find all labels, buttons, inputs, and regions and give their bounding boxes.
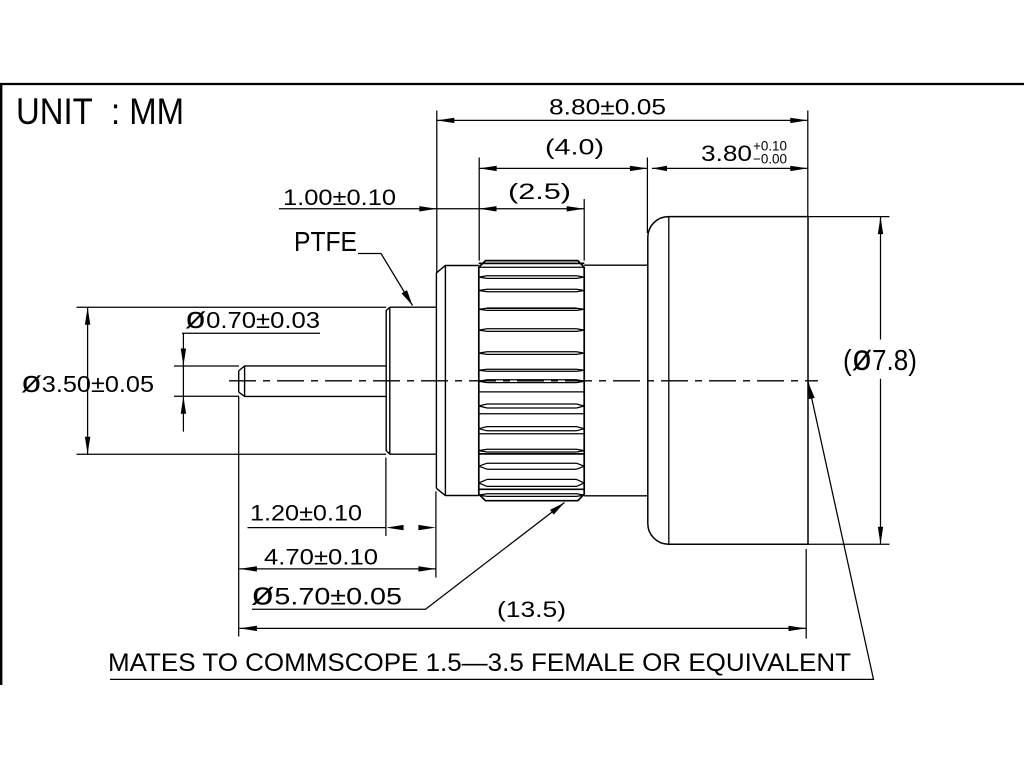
PTFE leader bbox=[358, 254, 413, 306]
svg-text:ø0.70±0.03: ø0.70±0.03 bbox=[185, 300, 320, 335]
svg-text:UNIT : MM: UNIT : MM bbox=[16, 91, 184, 132]
rear barrel bbox=[584, 265, 648, 496]
svg-text:(4.0): (4.0) bbox=[545, 135, 604, 160]
svg-text:(2.5): (2.5) bbox=[508, 179, 571, 204]
center pin bbox=[239, 366, 387, 397]
svg-text:ø5.70±0.05: ø5.70±0.05 bbox=[251, 576, 402, 612]
knurl heavy lines bbox=[479, 263, 584, 489]
PTFE flange bbox=[386, 307, 436, 454]
note underline and leader bbox=[110, 382, 874, 680]
svg-text:(13.5): (13.5) bbox=[497, 597, 566, 622]
hex body bbox=[648, 217, 808, 545]
svg-text:MATES TO COMMSCOPE 1.5—3.5 FEM: MATES TO COMMSCOPE 1.5—3.5 FEMALE OR EQU… bbox=[108, 649, 851, 677]
svg-text:PTFE: PTFE bbox=[294, 226, 357, 257]
centerline axis bbox=[229, 380, 818, 382]
svg-text:1.00±0.10: 1.00±0.10 bbox=[283, 185, 396, 210]
body corner junction line bbox=[668, 217, 670, 545]
svg-text:(ø7.8): (ø7.8) bbox=[843, 337, 917, 378]
svg-text:8.80±0.05: 8.80±0.05 bbox=[549, 95, 666, 120]
front barrel bbox=[436, 266, 478, 496]
svg-text:3.80: 3.80 bbox=[701, 141, 752, 166]
knurled nut bbox=[479, 261, 584, 501]
svg-text:−0.00: −0.00 bbox=[753, 152, 787, 167]
svg-text:4.70±0.10: 4.70±0.10 bbox=[264, 545, 378, 570]
knurl grooves bbox=[479, 263, 584, 496]
svg-text:1.20±0.10: 1.20±0.10 bbox=[250, 500, 362, 525]
